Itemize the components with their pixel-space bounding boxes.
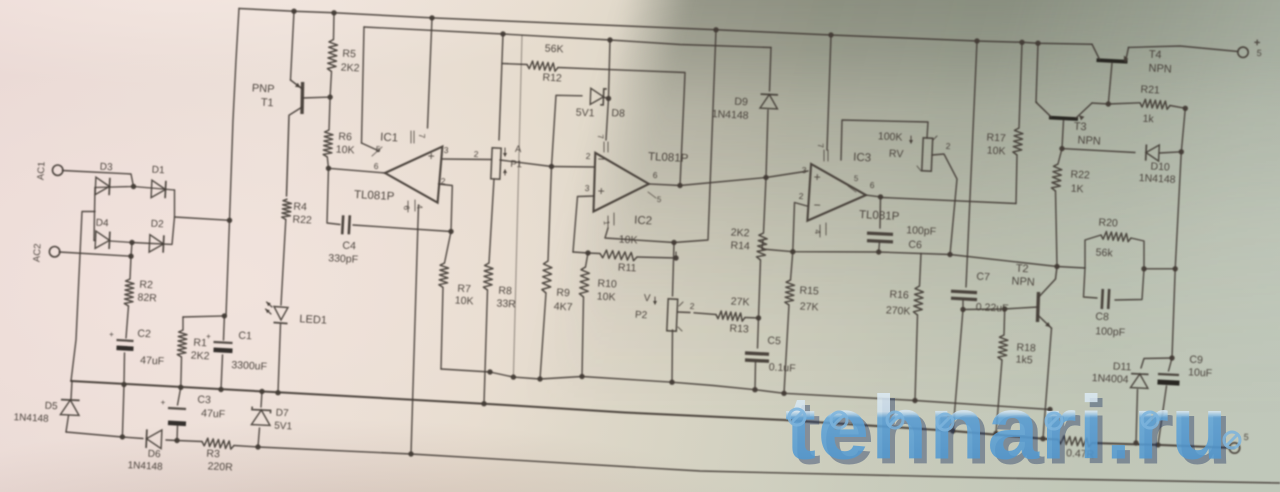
wire D5 to bottom rail corner xyxy=(66,416,69,433)
wiper arrow RV xyxy=(910,136,912,143)
capacitor C1 xyxy=(214,342,233,343)
junction dot LED1 on negative bus xyxy=(275,390,280,395)
junction dot IC3 output at C6 xyxy=(878,194,883,199)
wire IC2 plus input down to R11 node xyxy=(573,196,594,252)
resistor R20 xyxy=(1101,232,1131,242)
wire T2 emitter down to negative bus xyxy=(1043,328,1052,439)
wire R12 left lead xyxy=(502,64,527,65)
resistor R18 xyxy=(998,335,1008,360)
wire C9 to negative bus xyxy=(1158,386,1167,445)
wire box right bottom xyxy=(1115,269,1144,300)
junction dot C4/pin2/R7 node xyxy=(448,229,453,234)
wire D11 to negative bus xyxy=(1136,390,1138,444)
junction dot RV right on node wire xyxy=(947,252,952,257)
junction dot R21 right xyxy=(1183,106,1188,111)
resistor R4 xyxy=(282,199,292,220)
junction dot sense line at R15 xyxy=(781,391,786,396)
resistor R13 xyxy=(716,311,745,321)
terminal output negative xyxy=(1229,443,1239,453)
wire P1 bottom down to R8 xyxy=(489,179,494,263)
wire bridge minus down-rail xyxy=(71,212,95,382)
resistor R22 (T3) xyxy=(1052,164,1062,191)
wire rail to filter node xyxy=(226,220,230,316)
wire AC1 to bridge xyxy=(62,171,133,187)
potentiometer RV xyxy=(922,138,933,171)
wire R5 to node xyxy=(330,72,331,98)
wire D7 to bottom rail xyxy=(258,428,260,447)
terminal output positive xyxy=(1238,47,1248,57)
wire IC1 pin2 down to C4 node xyxy=(439,184,453,232)
wire C5 to sense line xyxy=(754,362,757,390)
wire node down to R10 xyxy=(586,253,589,267)
resistor R11 xyxy=(600,250,637,261)
transistor T1 PNP xyxy=(300,82,304,114)
wire R1 bottom to bus xyxy=(180,357,183,387)
wire P2 wiper to R13 xyxy=(678,311,691,314)
wire AC2 node to R2 xyxy=(130,256,131,279)
junction dot sense line at R10 xyxy=(579,374,584,379)
wire IC1 output to node xyxy=(329,168,386,173)
wire R14 to node xyxy=(759,260,761,318)
resistor R7 xyxy=(439,263,449,287)
junction dot T2 emitter on negative bus xyxy=(1040,436,1045,441)
wire node down to C5 xyxy=(758,318,759,348)
resistor R21 xyxy=(1140,99,1170,109)
transistor T3 NPN xyxy=(1049,116,1078,121)
junction dot box right node xyxy=(1141,266,1146,271)
wire top bus to T1 emitter xyxy=(291,11,295,80)
resistor R2 xyxy=(124,279,134,306)
wire node down to R9 xyxy=(548,167,552,262)
wire RV right down to node wire xyxy=(932,154,957,255)
junction dot filter node xyxy=(222,313,227,318)
wire node wire down to R15 xyxy=(791,252,793,280)
wire rail to D11 xyxy=(1141,358,1172,368)
pin tick IC3 pin4/1 xyxy=(819,225,821,237)
resistor R17 xyxy=(1013,128,1023,155)
wire R8 down through sense line to negative bus xyxy=(484,290,488,404)
junction dot node wire at T2 collector xyxy=(1054,264,1059,269)
junction dot R8 on negative bus xyxy=(481,401,486,406)
junction dot P2 top on wire xyxy=(671,240,676,245)
capacitor C7 xyxy=(951,291,977,292)
potentiometer P1 xyxy=(491,148,501,179)
wire box left bottom xyxy=(1084,268,1098,298)
wire R10 to sense line xyxy=(582,297,584,377)
wire top bus to R5 xyxy=(333,13,336,40)
resistor R5 xyxy=(327,40,337,72)
wire T1 base to R5/R6 node xyxy=(302,96,330,99)
wire bridge top row right xyxy=(134,187,175,191)
wire bridge bottom left stub xyxy=(94,240,96,242)
junction dot sense line at P2 xyxy=(669,380,674,385)
junction dot AC2 node xyxy=(128,254,133,259)
junction dot R11 left node xyxy=(585,250,590,255)
wire T1 collector diagonal down to R4 xyxy=(287,107,303,196)
resistor R8 xyxy=(483,263,493,290)
wire R2 to C2 xyxy=(126,306,129,338)
wire R4 to LED1 xyxy=(281,220,286,306)
wire R7 to sense line xyxy=(441,287,443,369)
wire IC3 minus input down to node wire xyxy=(793,203,807,252)
wire second bus down to D9 xyxy=(770,48,772,92)
wire C1 to negative bus xyxy=(221,355,223,390)
junction dot on top bus at C7 xyxy=(974,38,979,43)
junction dot IC1 pin4 on bottom rail xyxy=(408,451,413,456)
wire R11 right xyxy=(637,257,676,258)
wire top bus branch down to T3 xyxy=(1036,43,1038,102)
diode D10 xyxy=(1146,145,1159,161)
wire down to P2 xyxy=(673,243,675,297)
junction dot sense line at R9 xyxy=(537,376,542,381)
wire bridge top row left xyxy=(95,187,134,188)
junction dot sense line end at T2 emitter xyxy=(1047,407,1052,412)
LED LED1 xyxy=(274,307,288,321)
watermark tehnari.ru shadow xyxy=(790,381,1280,470)
wire box left top xyxy=(1085,235,1101,268)
junction dot R1 on negative bus xyxy=(178,385,183,390)
capacitor C4 xyxy=(342,215,343,234)
wire T3 base down xyxy=(1062,121,1064,149)
transistor T2 NPN xyxy=(1038,292,1039,322)
pin tick IC2 pin7 xyxy=(603,142,605,152)
wire LED1 ray 1 xyxy=(267,302,273,307)
wire IC2 bottom to top bus riser xyxy=(605,30,716,243)
wire box to output rail xyxy=(1144,268,1175,270)
junction dot D11 on negative bus xyxy=(1133,440,1138,445)
transistor T4 NPN xyxy=(1096,58,1127,63)
resistor R16 xyxy=(913,286,923,315)
wire vertical from second bus down to sense line xyxy=(513,35,522,377)
wire filter node to R1 top xyxy=(183,316,224,317)
wire AC2 node up to bridge bottom row xyxy=(131,243,132,257)
wire AC2 to bridge xyxy=(59,252,131,256)
capacitor C3 xyxy=(168,408,186,409)
wire bottom rail right xyxy=(234,446,1280,484)
junction dot D10 right on rail xyxy=(1179,149,1184,154)
watermark tehnari.ru xyxy=(785,376,1280,465)
wire bus down to C3 xyxy=(178,387,181,405)
wire IC2 output to D9 node xyxy=(649,178,766,186)
op-amp IC3 xyxy=(807,164,866,221)
wire bottom rail left xyxy=(66,432,143,439)
wiper arrow P2 top xyxy=(654,297,656,304)
junction dot C7 on negative bus xyxy=(950,428,955,433)
wire output rail down xyxy=(1172,108,1185,358)
wire top bus down to C7 xyxy=(966,41,977,287)
wire IC3 node long wire xyxy=(762,240,1085,268)
wire C3 to bottom rail xyxy=(176,426,179,441)
junction dot on top bus at T4/T3 branch xyxy=(1035,41,1040,46)
wire T2 base to R18/C7 xyxy=(963,307,1038,310)
wire second bus corner down to IC1 pin5 xyxy=(362,27,365,143)
wire LED1 ray 2 xyxy=(266,309,272,314)
junction dot T4 base / T3 collector / R21 xyxy=(1106,101,1111,106)
junction dot C3 bottom xyxy=(174,438,179,443)
wire to R13 xyxy=(694,313,716,315)
diode D9 xyxy=(760,95,777,109)
wire LED1 to negative bus xyxy=(278,324,281,393)
wire R11 node stub up xyxy=(675,252,677,258)
wire C7 down to negative bus xyxy=(953,301,963,432)
wire T4 emitter to output terminal xyxy=(1129,46,1239,52)
diode D11 xyxy=(1131,374,1148,388)
diode D1 xyxy=(151,180,165,197)
pin tick IC2 pin5 xyxy=(648,192,656,198)
resistor R19 0.47R xyxy=(1058,436,1092,447)
capacitor C5 xyxy=(745,353,769,354)
wire slant to IC1 top edge xyxy=(362,143,380,151)
diode D4 xyxy=(95,231,109,248)
wire T3 emitter to base node xyxy=(1092,103,1108,104)
wire to R18 xyxy=(1003,309,1006,335)
wire bridge plus node xyxy=(132,190,175,244)
wire sense line xyxy=(441,369,1050,410)
resistor R6 xyxy=(323,130,333,157)
wire second bus down to IC2 pin7 xyxy=(606,40,610,140)
capacitor C6 xyxy=(867,233,893,234)
junction dot sense line at R16 xyxy=(912,398,917,403)
junction dot bridge bottom mid xyxy=(129,240,134,245)
zener D7 xyxy=(251,410,270,425)
wire D8 right lead xyxy=(604,97,609,98)
junction dot on second bus at R12/P1 branch xyxy=(500,31,505,36)
wire D9 node down to R14 xyxy=(764,178,767,234)
wire rail to D5 xyxy=(71,381,72,399)
junction dot R18 top xyxy=(1002,306,1007,311)
pin tick IC1 pin7 xyxy=(410,131,412,143)
wire node wire down to R16 xyxy=(920,254,922,287)
diode D3 xyxy=(95,177,109,194)
wire R21 to output rail xyxy=(1170,106,1185,109)
junction dot on top bus at IC1 V+ branch xyxy=(429,15,434,20)
wiper arrow P1 xyxy=(504,148,506,156)
pin tick IC3 pin5 xyxy=(848,186,856,192)
wire T3 collector diagonal xyxy=(1036,102,1051,117)
resistor R9 xyxy=(542,261,552,293)
wire box right top xyxy=(1131,238,1144,269)
junction dot T3 base/D10/R22 node xyxy=(1059,146,1064,151)
pin tick IC1 pin5 xyxy=(372,147,382,156)
resistor R15 xyxy=(785,280,795,305)
zener D8 xyxy=(590,88,603,104)
junction dot D7 bottom on bottom rail xyxy=(255,444,260,449)
junction dot R11 right node xyxy=(673,255,678,260)
diode D5 xyxy=(60,400,79,415)
wire top bus down to R17 xyxy=(1019,42,1022,128)
wire negative bus to bottom rail at x122 xyxy=(122,385,124,437)
junction dot C6 on node wire xyxy=(876,249,881,254)
junction dot bottom rail x122 xyxy=(120,434,125,439)
wiper marks P2 xyxy=(679,302,683,306)
junction dot on top bus at T1 branch xyxy=(291,9,296,14)
wire bridge output to rail xyxy=(175,217,230,220)
junction dot C7 at base wire xyxy=(960,307,965,312)
wire C6 to node wire xyxy=(878,242,881,252)
wire T4 left diagonal from top bus xyxy=(1092,44,1100,59)
wire D10 to rail xyxy=(1160,152,1182,153)
pin tick IC1 pin4 xyxy=(407,201,409,212)
wire C4 to pin2 node xyxy=(353,225,451,232)
capacitor C9 xyxy=(1158,374,1179,375)
op-amp IC1 xyxy=(385,147,442,203)
wire node to R11 xyxy=(573,252,600,254)
wire P1 top up to second bus / R12 xyxy=(499,34,503,140)
junction dot sense line at C5 xyxy=(752,387,757,392)
wire bridge bottom mid xyxy=(110,241,132,243)
wire node to IC2 inverting input xyxy=(552,166,595,169)
wire R1 top lead xyxy=(182,317,184,330)
wire node to R7 xyxy=(445,232,452,264)
wire P2 bottom to sense line xyxy=(671,330,674,382)
wire R22 down to node wire xyxy=(1056,191,1058,267)
wire R15 to sense line xyxy=(784,305,789,393)
pin tick IC3 pin7 xyxy=(823,150,825,161)
wire top bus down to IC3 pin7 xyxy=(827,35,831,150)
capacitor C2 xyxy=(117,340,134,341)
junction dot T1 base node xyxy=(327,94,332,99)
wire top bus to IC1 pin7 xyxy=(428,18,433,128)
wire RV top to IC3 top edge xyxy=(841,120,928,160)
junction dot D7 top on negative bus xyxy=(259,389,264,394)
wire bus to D7 xyxy=(261,392,262,408)
potentiometer P2 xyxy=(667,299,678,331)
junction dot IC2 minus node xyxy=(549,164,554,169)
wire second V+ bus xyxy=(364,27,771,48)
wire R9 to sense line xyxy=(540,293,546,379)
junction dot bridge top mid xyxy=(131,184,136,189)
wire T2 emitter diagonal xyxy=(1038,315,1052,328)
wire top V+ bus xyxy=(239,9,1092,45)
resistor R1 xyxy=(177,330,187,357)
junction dot output rail at box xyxy=(1173,266,1178,271)
wire node down to R22 xyxy=(1058,149,1062,164)
wire IC1 pin4 down to bottom rail xyxy=(411,205,419,454)
wire output down to C6 xyxy=(879,197,882,228)
wire node up to D8 xyxy=(552,95,583,166)
wire T4 right diagonal xyxy=(1126,47,1129,61)
junction dot C9 on negative bus xyxy=(1155,442,1160,447)
pin tick IC2 pin1/4 xyxy=(607,216,609,228)
wire negative bus right to output xyxy=(1092,443,1234,448)
junction dot D8 right on IC2 pin7 vertical xyxy=(606,96,611,101)
diode D6 xyxy=(147,430,162,449)
resistor R10 xyxy=(579,267,589,297)
resistor R14 xyxy=(757,233,768,260)
wire R13 right to node xyxy=(745,317,759,320)
junction dot C1 on negative bus xyxy=(218,387,223,392)
junction dot C2 on negative bus xyxy=(121,382,126,387)
wire R16 to sense line xyxy=(915,315,918,401)
wire bridge left column xyxy=(94,188,95,241)
junction dot R13/R14/C5 node xyxy=(756,315,761,320)
wire node down to C4 xyxy=(327,168,340,224)
wire T4 base down xyxy=(1108,63,1112,104)
wire R18 to negative bus xyxy=(996,360,1002,434)
junction dot IC3 minus on node wire xyxy=(790,249,795,254)
wire D9 node to IC3 plus input xyxy=(766,171,808,178)
wire IC3 output xyxy=(866,195,1016,203)
junction dot on second bus at IC2 pin7 branch xyxy=(607,37,612,42)
terminal AC1 xyxy=(53,165,63,175)
wire IC1 pin3 to P1 xyxy=(442,158,491,161)
resistor R12 xyxy=(527,61,558,71)
junction dot on top bus at R5 xyxy=(331,10,336,15)
capacitor C8 xyxy=(1102,289,1103,309)
wire node to D10 xyxy=(1062,149,1135,153)
junction dot sense line at mystery vertical xyxy=(511,374,516,379)
wire T3 emitter diagonal xyxy=(1076,103,1092,118)
wire to C1 top xyxy=(223,316,226,340)
wire C2 to negative bus xyxy=(123,353,126,385)
wire R6 to IC1 output node xyxy=(327,157,328,168)
junction dot on top bus x=716 xyxy=(713,27,718,32)
op-amp IC2 xyxy=(594,153,649,212)
wire node to R21 xyxy=(1108,103,1140,104)
junction dot on top bus at IC3 pin7 xyxy=(828,32,833,37)
wire negative bus xyxy=(71,381,1058,440)
wire R17 bottom to IC3 output wire xyxy=(1016,155,1017,204)
junction dot D9 node xyxy=(763,175,768,180)
junction dot sense line at R8 cross xyxy=(487,369,492,374)
junction dot IC2 output feedback xyxy=(677,183,682,188)
wire left rail from top bus down to bridge output xyxy=(230,9,240,221)
resistor R3 xyxy=(202,438,234,449)
wire P1 wiper line to IC2 minus node xyxy=(500,160,552,167)
junction dot IC1 output node xyxy=(326,166,331,171)
junction dot R18 on negative bus xyxy=(993,431,998,436)
junction dot on top bus at R17 xyxy=(1019,40,1024,45)
wire T1 emitter diagonal xyxy=(291,80,303,89)
junction dot bridge output on rail xyxy=(227,218,232,223)
terminal AC2 xyxy=(49,247,59,257)
diode D2 xyxy=(149,235,163,252)
wire R12 right to IC2 output node xyxy=(558,68,685,186)
wire D9 to node xyxy=(766,110,768,178)
junction dot output rail at D11/C9 xyxy=(1169,355,1174,360)
wiper marks RV xyxy=(917,166,921,171)
wire T2 collector xyxy=(1038,267,1057,298)
wire bottom rail D6-R3 xyxy=(166,440,202,442)
wire node to R6 xyxy=(329,97,330,130)
wire rail to C9 xyxy=(1169,358,1173,371)
